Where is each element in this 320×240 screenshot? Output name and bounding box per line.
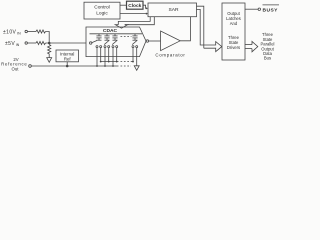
svg-text:Drivers: Drivers [227,45,240,50]
wire (S4 contacts down) [132,48,134,62]
svg-text:Comparator: Comparator [155,52,185,57]
bus SAR to CDAC [115,17,154,29]
Control Logic box [84,2,120,19]
svg-text:Clock: Clock [128,3,141,9]
SAR box [148,3,197,17]
wire (control logic to clock) [120,4,127,6]
ellipsis (more bits) [121,36,132,38]
svg-text:SAR: SAR [168,7,179,13]
terminal 2V Reference Out [1,57,31,72]
capacitor C3 [112,34,117,40]
terminal ±10V IN [3,29,27,35]
node dots on rails [96,61,134,67]
wire [46,42,87,44]
wire (S2 contacts down) [104,48,106,66]
comparator U3 [155,31,185,57]
switch S1 input contact [90,42,92,44]
Internal Ref box U2 [56,50,79,62]
svg-text:Out: Out [12,66,20,71]
svg-text:±10V: ±10V [3,29,17,35]
resistor R2 [36,41,46,44]
CDAC box [86,27,146,57]
label Three State Parallel Output Data Bus [261,32,275,61]
node [66,65,68,67]
wire (rail dashed continuation) [121,65,132,67]
reference rail [101,61,119,63]
Output Latches box [222,3,245,60]
ground (CDAC rail) [134,66,139,71]
node (input junction) [48,42,50,44]
Clock box [127,1,144,9]
CDAC top rail [90,33,143,35]
wire (S1 contacts down) [96,48,98,66]
svg-text:Ref: Ref [64,56,71,61]
svg-text:BUSY: BUSY [263,7,279,13]
svg-text:CDAC: CDAC [103,28,118,34]
bus SAR to output latches [197,6,222,51]
wire (2V ref rail) [31,65,118,67]
bus output latches to data bus [245,41,258,51]
switch S1 [92,40,102,47]
capacitor C1 [96,34,101,40]
svg-text:IN: IN [16,43,20,47]
svg-text:IN: IN [17,31,21,35]
ground (input divider) [47,58,52,63]
switch S3 [112,40,118,47]
label BUSY (active low) [263,7,279,13]
switch S2 [104,40,110,47]
capacitor C2 [104,34,109,40]
capacitor C4 [132,34,137,40]
wire (comparator output to SAR) [180,17,190,41]
svg-text:Control: Control [94,5,109,11]
switch S4 [132,40,138,47]
wire (S3 contacts down) [112,48,114,66]
wire (clock to SAR) [143,5,146,8]
wire [27,42,36,44]
resistor R1 [36,30,46,33]
svg-text:±5V: ±5V [5,41,15,47]
wire [27,31,36,33]
resistor R3 [48,45,51,58]
wire [46,32,50,44]
wire to comparator [149,40,161,42]
wire (control logic to SAR) [120,13,146,15]
wire BUSY [245,8,258,10]
svg-text:Bus: Bus [264,56,271,61]
svg-text:And: And [230,21,238,26]
wire (ref to rail) [66,62,68,66]
svg-text:Logic: Logic [96,10,108,16]
terminal ±5V IN [5,41,27,47]
node (CDAC output) [146,40,148,42]
